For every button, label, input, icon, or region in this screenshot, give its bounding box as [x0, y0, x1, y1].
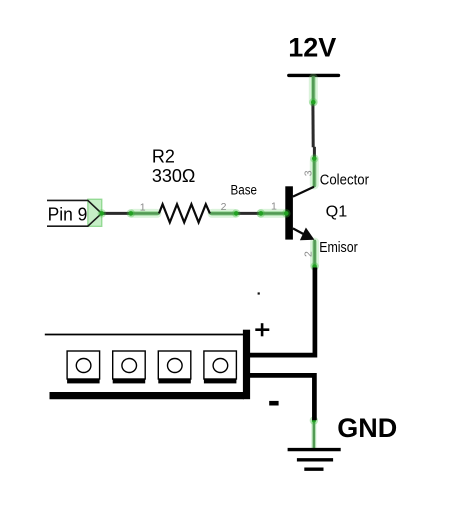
- svg-text:1: 1: [140, 201, 146, 213]
- svg-text:R2: R2: [152, 146, 175, 166]
- svg-text:1: 1: [271, 201, 277, 213]
- svg-text:Pin 9: Pin 9: [48, 204, 88, 224]
- svg-text:12V: 12V: [288, 33, 336, 63]
- svg-text:Base: Base: [231, 182, 258, 197]
- svg-text:2: 2: [302, 251, 314, 257]
- svg-text:3: 3: [302, 170, 314, 176]
- svg-text:GND: GND: [337, 413, 397, 443]
- svg-text:Q1: Q1: [326, 203, 348, 220]
- svg-text:Emisor: Emisor: [319, 239, 358, 256]
- svg-text:Colector: Colector: [320, 171, 369, 188]
- svg-text:330Ω: 330Ω: [152, 166, 196, 186]
- svg-text:2: 2: [221, 201, 227, 213]
